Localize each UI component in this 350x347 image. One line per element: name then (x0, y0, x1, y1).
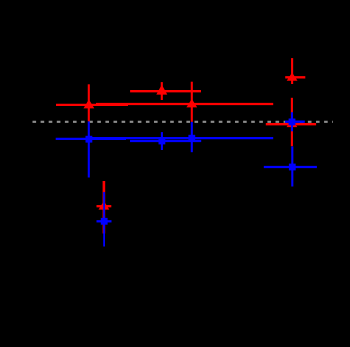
R6 y-error (103, 181, 106, 234)
B5 x-error (264, 166, 317, 168)
B6 y-error (103, 192, 105, 247)
B6 x-error (97, 220, 112, 222)
B2 x-error (130, 140, 201, 142)
R2 y-error (161, 82, 163, 100)
B5 y-error (291, 146, 293, 186)
R6 marker (99, 201, 110, 210)
B5 marker (289, 164, 296, 171)
R5 y-error (291, 98, 293, 146)
R4 marker (287, 73, 298, 81)
R2 x-error (130, 90, 201, 92)
R1 y-error (88, 84, 90, 121)
blue series (56, 112, 317, 246)
B1 x-error (56, 138, 126, 140)
dashed reference line (33, 121, 334, 123)
R5 marker (287, 119, 298, 128)
B6 marker (101, 218, 108, 225)
R4 x-error (285, 76, 305, 78)
R5 x-error (266, 123, 316, 125)
R3 marker (186, 99, 197, 108)
R2 marker (156, 85, 167, 95)
B2 marker (159, 138, 166, 145)
B4 x-error (285, 121, 305, 123)
B4 y-error (291, 112, 293, 131)
R1 x-error (56, 104, 128, 106)
R3 x-error (96, 103, 273, 105)
B4 marker (289, 119, 296, 126)
B3 marker (188, 135, 195, 142)
R1 marker (84, 99, 95, 108)
B1 marker (86, 136, 93, 143)
B2 y-error (161, 132, 163, 150)
B3 x-error (92, 137, 274, 139)
R4 y-error (291, 58, 293, 84)
R6 x-error (97, 205, 112, 207)
red series (56, 58, 316, 233)
B1 y-error (88, 121, 90, 177)
B3 y-error (191, 122, 193, 152)
R3 y-error (191, 82, 193, 122)
